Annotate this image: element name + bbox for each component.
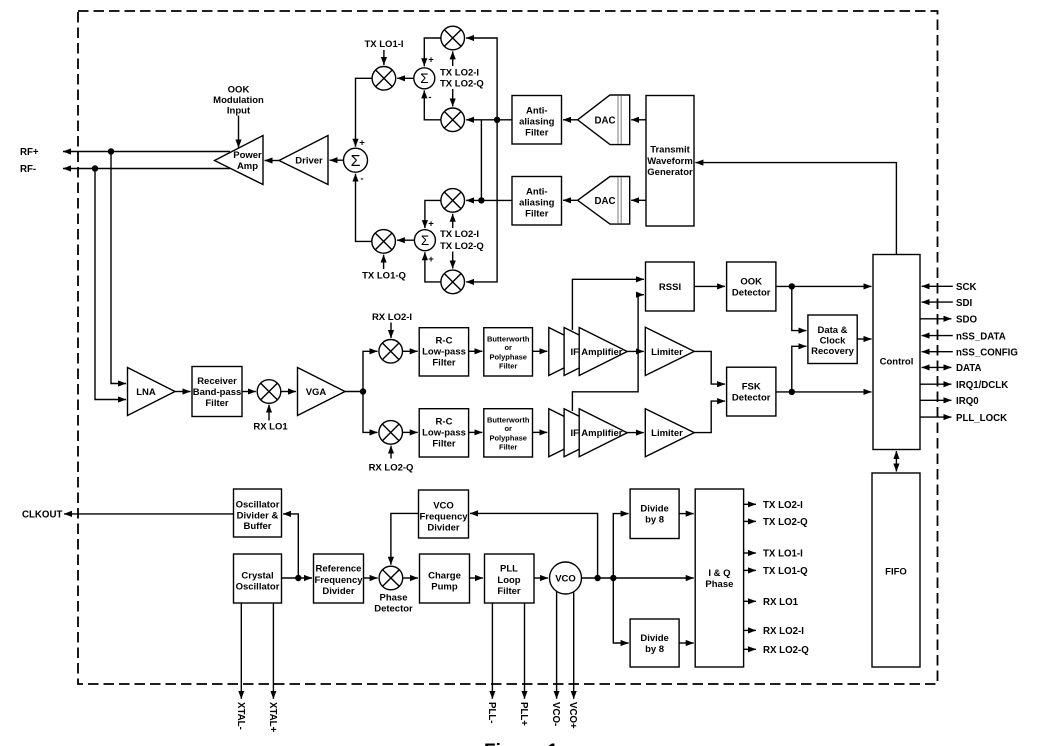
- control block: [873, 255, 920, 450]
- svg-text:Reference: Reference: [316, 564, 362, 575]
- butterworth polyphase filter I: [484, 328, 533, 376]
- wire XTAL+: [272, 603, 274, 699]
- wire reference divider to phase detector: [364, 577, 378, 579]
- power amp: [215, 136, 264, 185]
- node RF- junction: [92, 165, 98, 171]
- wire TX LO1-Q into mixer: [383, 255, 385, 269]
- svg-text:Pump: Pump: [431, 582, 458, 593]
- divide by 8 bottom: [630, 619, 679, 667]
- mixer TX LO1-Q: [372, 230, 396, 254]
- RC low-pass filter Q: [419, 409, 468, 457]
- svg-text:Modulation: Modulation: [213, 95, 264, 106]
- wire FSK detector to control: [776, 391, 872, 393]
- svg-text:RX LO2-Q: RX LO2-Q: [763, 645, 809, 656]
- wire data clock recovery to control: [857, 338, 871, 340]
- svg-text:R-C: R-C: [436, 336, 453, 347]
- wire LO out TX LO2-Q: [744, 517, 809, 528]
- svg-text:+: +: [359, 138, 365, 149]
- svg-text:RX LO1: RX LO1: [253, 422, 288, 433]
- wire LNA to band-pass filter: [175, 391, 191, 393]
- wire IF amp I to limiter I: [627, 350, 644, 352]
- svg-text:VCO: VCO: [433, 501, 454, 512]
- wire VCO frequency divider to phase detector: [391, 513, 419, 564]
- wire mixer4 to summer Q plus input: [425, 252, 441, 282]
- pin IRQ0: [920, 396, 978, 407]
- wire RSSI to OOK detector: [694, 285, 725, 287]
- svg-text:Divider: Divider: [427, 523, 460, 534]
- wire mixer Q to RC filter: [403, 431, 418, 433]
- svg-text:by 8: by 8: [645, 644, 664, 655]
- wire RF- output: [63, 168, 230, 170]
- oscillator divider and buffer: [234, 489, 282, 537]
- wire band-pass filter to mixer RX LO1: [242, 391, 256, 393]
- wire mixer RX LO1 to VGA: [281, 391, 296, 393]
- wire XTAL-: [240, 603, 242, 699]
- svg-text:DAC: DAC: [595, 196, 616, 207]
- wire TX LO2-Q into mixer2: [452, 89, 454, 106]
- wire PLL-: [491, 603, 493, 699]
- svg-text:nSS_DATA: nSS_DATA: [956, 331, 1006, 342]
- svg-text:-: -: [360, 174, 363, 185]
- svg-text:Polyphase: Polyphase: [489, 353, 527, 362]
- svg-text:Clock: Clock: [820, 336, 847, 347]
- node crystal output split: [295, 575, 301, 581]
- mixer TX upconvert 4: [441, 270, 465, 294]
- wire mixer3 to summer Q plus input: [425, 200, 441, 228]
- wire LO out TX LO1-Q: [744, 566, 809, 577]
- svg-text:IRQ0: IRQ0: [956, 396, 979, 407]
- svg-text:FSK: FSK: [742, 382, 761, 393]
- wire RX LO1 into mixer: [268, 405, 270, 421]
- svg-text:Waveform: Waveform: [647, 156, 693, 167]
- limiter Q: [645, 409, 694, 457]
- wire AAF-Q output into mixer3 line: [466, 199, 512, 201]
- svg-text:Transmit: Transmit: [650, 145, 690, 156]
- pin SDO: [920, 315, 977, 326]
- wire RC I to butterworth I: [469, 350, 483, 352]
- svg-text:aliasing: aliasing: [519, 198, 555, 209]
- wire DAC I to AAF I: [563, 119, 578, 121]
- anti-aliasing filter I: [512, 96, 562, 145]
- FSK detector: [727, 367, 776, 416]
- anti-aliasing filter Q: [512, 177, 562, 226]
- svg-text:TX LO1-I: TX LO1-I: [763, 549, 803, 560]
- wire IF amp Q tap to RSSI: [572, 295, 644, 411]
- svg-text:RSSI: RSSI: [659, 282, 681, 293]
- wire LO out RX LO2-I: [744, 626, 805, 637]
- svg-text:Driver: Driver: [295, 156, 323, 167]
- svg-text:PLL_LOCK: PLL_LOCK: [956, 413, 1007, 424]
- svg-text:TX LO1-I: TX LO1-I: [364, 39, 403, 50]
- wire mixer I to RC filter: [403, 350, 418, 352]
- svg-text:IF Amplifier: IF Amplifier: [571, 347, 623, 358]
- svg-text:TX LO2-I: TX LO2-I: [763, 500, 803, 511]
- pin SCK: [922, 282, 977, 293]
- wire VCO output to VCO frequency divider: [470, 513, 598, 578]
- svg-text:RX LO2-Q: RX LO2-Q: [369, 463, 414, 474]
- RC low-pass filter I: [419, 328, 468, 376]
- svg-text:by 8: by 8: [645, 515, 664, 526]
- wire RF+ output: [63, 151, 230, 153]
- DAC Q: [578, 177, 630, 225]
- VCO: [550, 562, 582, 594]
- IF amplifier Q: [549, 409, 627, 457]
- limiter I: [645, 327, 694, 375]
- wire VCO to divide by 8 top: [613, 514, 628, 578]
- wire IF amp I tap to RSSI: [572, 279, 644, 330]
- svg-text:SCK: SCK: [956, 282, 976, 293]
- svg-text:Filter: Filter: [525, 208, 549, 219]
- wire RF+ to LNA input: [111, 152, 126, 384]
- wire LO out RX LO1: [744, 597, 799, 608]
- reference frequency divider: [314, 554, 364, 603]
- svg-text:+: +: [428, 219, 434, 230]
- svg-text:XTAL+: XTAL+: [267, 702, 278, 733]
- svg-text:Filter: Filter: [432, 358, 456, 369]
- wire LO out TX LO2-I: [744, 500, 804, 511]
- svg-text:Low-pass: Low-pass: [422, 347, 466, 358]
- svg-text:Detector: Detector: [732, 393, 771, 404]
- svg-text:SDI: SDI: [956, 298, 972, 309]
- node AAF-Q split: [478, 197, 484, 203]
- wire IF amp Q to limiter Q: [627, 432, 644, 434]
- wire mixer1 to summer I plus input: [424, 38, 441, 66]
- wire PLL loop filter to VCO: [534, 577, 548, 579]
- svg-text:Anti-: Anti-: [526, 187, 548, 198]
- wire OOK split to data clock recovery: [792, 286, 807, 330]
- svg-text:+: +: [428, 55, 434, 66]
- svg-text:Limiter: Limiter: [651, 428, 683, 439]
- svg-text:RX LO2-I: RX LO2-I: [372, 312, 412, 323]
- svg-text:TX LO2-Q: TX LO2-Q: [440, 241, 484, 252]
- data clock recovery: [808, 315, 857, 364]
- svg-text:Filter: Filter: [432, 439, 456, 450]
- svg-text:VCO: VCO: [555, 574, 576, 585]
- svg-text:VGA: VGA: [306, 387, 327, 398]
- wire OOK detector to control: [776, 285, 872, 287]
- svg-text:RX LO1: RX LO1: [763, 597, 799, 608]
- FIFO: [872, 473, 920, 667]
- wire control to TWG: [695, 163, 896, 255]
- svg-text:RF+: RF+: [20, 147, 39, 158]
- svg-text:Anti-: Anti-: [526, 106, 548, 117]
- wire driver to power amp: [265, 160, 280, 162]
- svg-text:Polyphase: Polyphase: [489, 434, 527, 443]
- PLL loop filter: [485, 554, 535, 603]
- svg-text:Divide: Divide: [640, 633, 669, 644]
- svg-text:Input: Input: [227, 106, 251, 117]
- wire CLKOUT: [64, 513, 233, 515]
- svg-text:RF-: RF-: [20, 164, 36, 175]
- node VCO out 2: [610, 575, 616, 581]
- svg-text:Buffer: Buffer: [244, 521, 272, 532]
- wire TX LO2-I into mixer3: [452, 214, 454, 228]
- svg-text:XTAL-: XTAL-: [235, 702, 246, 730]
- butterworth polyphase filter Q: [484, 409, 533, 457]
- svg-text:LNA: LNA: [136, 387, 156, 398]
- wire butterworth Q to IF amp Q: [533, 431, 548, 433]
- wire TX LO1-I into mixer: [383, 50, 385, 65]
- wire summer I to mixer TX LO1-I: [397, 77, 414, 79]
- svg-text:Recovery: Recovery: [811, 346, 854, 357]
- mixer RX LO2-I: [379, 340, 403, 364]
- wire LO out TX LO1-I: [744, 549, 804, 560]
- pin nSS_DATA: [922, 331, 1006, 342]
- svg-text:R-C: R-C: [436, 417, 453, 428]
- svg-text:Filter: Filter: [499, 442, 517, 451]
- wire RX LO2-I into mixer: [390, 323, 392, 339]
- svg-text:Power: Power: [233, 150, 262, 161]
- svg-text:TX LO1-Q: TX LO1-Q: [763, 566, 808, 577]
- svg-text:TX LO2-I: TX LO2-I: [440, 229, 479, 240]
- svg-text:Filter: Filter: [205, 398, 229, 409]
- mixer TX upconvert 3: [441, 189, 465, 213]
- svg-text:+: +: [428, 254, 434, 265]
- wire TX LO2-Q into mixer4: [452, 252, 454, 269]
- wire TWG to DAC Q: [631, 199, 646, 201]
- node RF+ junction: [108, 148, 114, 154]
- svg-text:Phase: Phase: [705, 579, 733, 590]
- wire crystal oscillator to reference divider: [282, 577, 313, 579]
- wire summer to driver: [330, 159, 344, 161]
- wire crystal split to oscillator divider: [283, 514, 298, 578]
- wire limiter I to FSK detector: [694, 351, 725, 384]
- wire FSK split to data clock recovery: [792, 346, 807, 392]
- pin SDI: [922, 298, 973, 309]
- summer TX I path: [414, 68, 435, 89]
- VCO frequency divider: [419, 490, 469, 538]
- LNA: [128, 368, 176, 416]
- svg-text:OOK: OOK: [740, 277, 762, 288]
- svg-text:TX LO2-Q: TX LO2-Q: [763, 517, 808, 528]
- svg-text:aliasing: aliasing: [519, 117, 555, 128]
- svg-text:-: -: [428, 92, 431, 103]
- mixer TX upconvert 2: [441, 108, 465, 132]
- svg-text:Low-pass: Low-pass: [422, 428, 466, 439]
- node FSK output split: [789, 389, 795, 395]
- pin IRQ1/DCLK: [920, 380, 1008, 391]
- svg-text:Phase: Phase: [380, 593, 408, 604]
- charge pump: [420, 554, 470, 603]
- wire butterworth I to IF amp I: [533, 350, 548, 352]
- wire TX LO2-I into mixer1: [452, 51, 454, 66]
- divide by 8 top: [630, 489, 679, 539]
- svg-text:RX LO2-I: RX LO2-I: [763, 626, 804, 637]
- svg-text:Amp: Amp: [237, 161, 258, 172]
- wire LO out RX LO2-Q: [744, 645, 810, 656]
- IF amplifier I: [549, 328, 627, 376]
- wire AAF-I feed down to mixer4: [466, 120, 497, 282]
- svg-text:TX LO2-I: TX LO2-I: [440, 68, 479, 79]
- DAC I: [578, 95, 630, 145]
- wire PLL+: [524, 603, 526, 699]
- wire OOK modulation input arrow: [238, 116, 240, 148]
- VGA: [298, 368, 346, 416]
- svg-text:Oscillator: Oscillator: [236, 500, 280, 511]
- IQ phase generator: [695, 489, 743, 667]
- svg-text:IRQ1/DCLK: IRQ1/DCLK: [956, 380, 1008, 391]
- wire limiter Q to FSK detector: [694, 401, 725, 433]
- svg-text:OOK: OOK: [228, 85, 250, 96]
- svg-text:or: or: [504, 343, 512, 352]
- svg-text:Filter: Filter: [525, 127, 549, 138]
- svg-text:Detector: Detector: [374, 604, 413, 615]
- svg-text:Σ: Σ: [351, 153, 361, 170]
- node AAF-I split: [494, 117, 500, 123]
- svg-text:Σ: Σ: [420, 71, 428, 86]
- svg-text:Frequency: Frequency: [314, 575, 363, 586]
- svg-text:TX LO1-Q: TX LO1-Q: [362, 271, 406, 282]
- driver amp: [279, 136, 328, 185]
- node OOK output split: [789, 283, 795, 289]
- wire mixer TX LO1-I to main summer: [356, 78, 373, 146]
- svg-text:I & Q: I & Q: [708, 568, 730, 579]
- svg-text:PLL+: PLL+: [518, 702, 529, 726]
- svg-text:Limiter: Limiter: [651, 347, 683, 358]
- wire AAF-I output feed to mixer1: [466, 38, 497, 120]
- wire AAF-I output into mixer2 line: [466, 119, 512, 121]
- svg-text:Divider: Divider: [322, 586, 355, 597]
- transmit waveform generator: [646, 96, 694, 227]
- svg-text:Divider &: Divider &: [237, 511, 279, 522]
- wire RC Q to butterworth Q: [469, 431, 483, 433]
- svg-text:Filter: Filter: [499, 361, 517, 370]
- wire TWG to DAC I: [631, 119, 646, 121]
- svg-text:Control: Control: [880, 357, 914, 368]
- wire control to FIFO bidirectional: [895, 451, 897, 472]
- wire split to mixer RX LO2-Q: [363, 392, 378, 433]
- wire RF- to LNA input: [95, 169, 126, 400]
- svg-text:Data &: Data &: [817, 325, 847, 336]
- wire VGA to RX mixers split: [345, 391, 363, 393]
- wire summer Q to mixer TX LO1-Q: [397, 239, 415, 241]
- wire charge pump to PLL loop filter: [470, 577, 484, 579]
- node VGA output split: [360, 388, 366, 394]
- label phase detector: [374, 593, 413, 615]
- svg-text:VCO-: VCO-: [550, 702, 561, 726]
- wire mixer2 to summer I minus input: [424, 90, 441, 119]
- OOK detector: [727, 262, 776, 311]
- svg-text:Receiver: Receiver: [197, 376, 237, 387]
- wire divide8 bottom to IQ phase: [679, 642, 694, 644]
- svg-text:PLL: PLL: [500, 564, 518, 575]
- svg-text:PLL-: PLL-: [486, 702, 497, 724]
- svg-text:Crystal: Crystal: [241, 571, 273, 582]
- svg-text:IF Amplifier: IF Amplifier: [571, 428, 623, 439]
- receiver band-pass filter: [192, 367, 242, 417]
- wire split to mixer RX LO2-I: [363, 351, 378, 391]
- mixer TX upconvert 1: [441, 26, 465, 50]
- svg-text:DAC: DAC: [595, 116, 616, 127]
- crystal oscillator: [234, 554, 282, 603]
- svg-text:Charge: Charge: [428, 571, 461, 582]
- svg-text:Detector: Detector: [732, 288, 771, 299]
- svg-text:FIFO: FIFO: [885, 567, 907, 578]
- svg-text:DATA: DATA: [956, 363, 981, 374]
- svg-text:TX LO2-Q: TX LO2-Q: [440, 79, 484, 90]
- wire mixer TX LO1-Q to main summer: [356, 174, 372, 242]
- summer main TX: [344, 148, 368, 172]
- pin DATA bidirectional: [922, 363, 982, 374]
- mixer TX LO1-I: [372, 67, 396, 91]
- mixer RX LO2-Q: [379, 421, 403, 445]
- wire divide8 top to IQ phase: [679, 513, 694, 515]
- svg-text:Frequency: Frequency: [419, 512, 468, 523]
- mixer RX LO1: [257, 380, 281, 404]
- svg-text:Figure 1.: Figure 1.: [484, 741, 563, 746]
- svg-text:or: or: [504, 424, 512, 433]
- svg-text:Loop: Loop: [497, 575, 520, 586]
- wire RX LO2-Q into mixer: [390, 446, 392, 459]
- RSSI: [646, 262, 695, 311]
- wire AAF-Q feed up to mixer2: [480, 120, 482, 201]
- svg-text:Filter: Filter: [497, 586, 521, 597]
- label OOK Modulation Input: [213, 85, 264, 117]
- svg-text:Oscillator: Oscillator: [236, 582, 280, 593]
- pin nSS_CONFIG: [922, 347, 1018, 358]
- wire DAC Q to AAF Q: [563, 199, 578, 201]
- svg-text:Σ: Σ: [421, 233, 429, 248]
- phase detector mixer: [379, 566, 403, 590]
- pin PLL_LOCK: [920, 413, 1007, 424]
- wire phase detector to charge pump: [403, 577, 418, 579]
- wire VCO to IQ phase: [582, 577, 694, 579]
- chip boundary dashed border: [78, 11, 938, 684]
- wire VCO-: [556, 592, 558, 699]
- wire VCO to divide by 8 bottom: [613, 578, 628, 643]
- svg-text:Divide: Divide: [640, 504, 669, 515]
- summer TX Q path: [414, 230, 435, 251]
- svg-text:CLKOUT: CLKOUT: [22, 510, 62, 521]
- svg-text:VCO+: VCO+: [567, 702, 578, 729]
- wire VCO+: [573, 593, 575, 699]
- svg-text:Generator: Generator: [647, 167, 693, 178]
- svg-text:Band-pass: Band-pass: [193, 387, 242, 398]
- node VCO out 1: [594, 575, 600, 581]
- svg-text:nSS_CONFIG: nSS_CONFIG: [956, 347, 1018, 358]
- svg-text:SDO: SDO: [956, 315, 977, 326]
